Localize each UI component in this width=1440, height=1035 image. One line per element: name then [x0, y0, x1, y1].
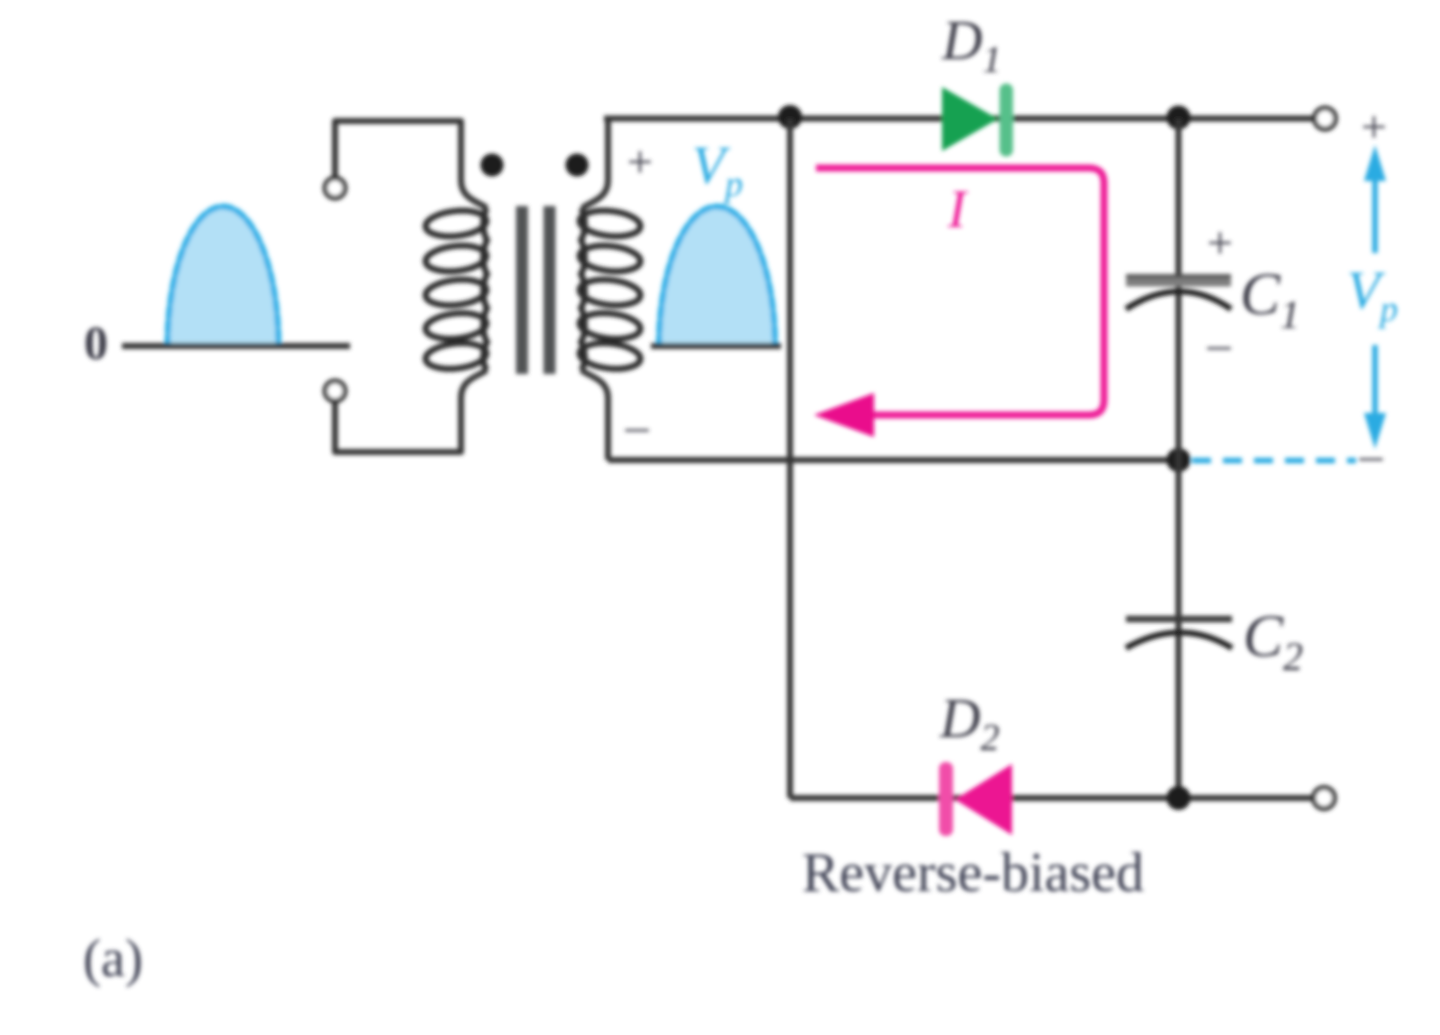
node : secondary top / D1 anode junction	[778, 105, 802, 129]
wire : primary winding feed	[335, 121, 487, 208]
svg-text:I: I	[947, 179, 969, 239]
wire : dashed reference line (blue)	[1192, 458, 1356, 464]
wire : secondary bottom rail to C1 bottom	[608, 457, 1179, 463]
diode D2 (reverse biased, magenta)	[939, 762, 1012, 836]
svg-text:+: +	[627, 136, 653, 187]
secondary half-sine pulse	[659, 207, 775, 346]
svg-text:Reverse-biased: Reverse-biased	[802, 842, 1144, 904]
wire : primary winding return	[335, 370, 487, 452]
transformer T1 phasing dot (primary)	[481, 154, 504, 177]
svg-text:(a): (a)	[83, 928, 143, 988]
transformer T1 primary winding (coil)	[424, 208, 487, 372]
node : D2 cathode / C2 bottom junction	[1167, 786, 1191, 810]
wire : secondary winding return down to bottom rail	[581, 370, 608, 460]
output terminal top (open circle)	[1315, 108, 1336, 129]
diode D1 (forward biased, green)	[942, 84, 1013, 157]
transformer T1 core (two bars)	[516, 206, 528, 374]
capacitor C2	[1126, 619, 1232, 648]
wire : bottom rail through D2	[790, 795, 1313, 801]
node : D1 cathode / C1 top junction	[1167, 106, 1191, 130]
transformer T1 phasing dot (secondary)	[566, 154, 589, 177]
svg-text:–: –	[1359, 429, 1384, 480]
transformer T1 secondary winding (coil)	[578, 208, 641, 372]
svg-text:0: 0	[84, 317, 108, 370]
measurement arrow Vp (blue, right side)	[1364, 145, 1386, 449]
wire : top rail	[604, 116, 1314, 122]
current loop I (magenta)	[816, 168, 1104, 415]
svg-text:+: +	[1361, 101, 1387, 152]
svg-text:+: +	[1207, 217, 1233, 268]
wire : secondary pulse baseline	[651, 343, 781, 349]
arrowhead of current loop	[814, 393, 874, 437]
transformer T1 primary terminal (top, open circle)	[325, 178, 345, 198]
wire : input signal baseline	[122, 343, 350, 349]
input half-sine pulse	[168, 207, 279, 346]
svg-text:–: –	[625, 400, 650, 451]
transformer T1 primary terminal (bottom, open circle)	[325, 381, 345, 401]
node : C1 bottom / C2 top junction	[1167, 448, 1191, 472]
wire : secondary winding feed + top rail to output	[582, 119, 608, 209]
output terminal bottom (open circle)	[1314, 788, 1335, 809]
wire : right branch vertical (C1/C2 leg)	[1176, 119, 1182, 799]
capacitor C1	[1126, 276, 1231, 309]
wire : vertical from top node down to D2 branch	[787, 119, 793, 799]
svg-text:–: –	[1207, 318, 1232, 369]
